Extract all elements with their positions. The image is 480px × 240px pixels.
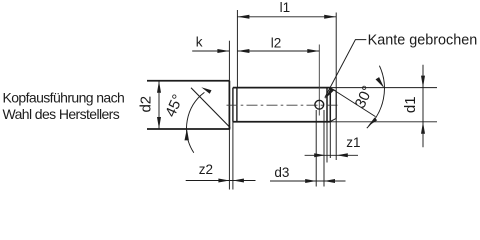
axis centerline (227, 104, 340, 106)
dimension d1 (402, 65, 425, 148)
svg-text:l2: l2 (271, 35, 282, 50)
end chamfer edge top (330, 88, 336, 91)
head outline bottom (147, 128, 230, 130)
leader Kante gebrochen (325, 32, 477, 99)
svg-text:k: k (196, 35, 203, 50)
extension line d3 right (323, 110, 325, 187)
extension line d3 left (315, 110, 317, 187)
head outline top (147, 80, 230, 82)
svg-text:Kante gebrochen: Kante gebrochen (368, 32, 478, 48)
svg-text:d1: d1 (402, 96, 419, 113)
extension line l1 z1 right (335, 13, 337, 161)
svg-text:z1: z1 (346, 135, 360, 150)
dimension l2 (237, 35, 319, 53)
extension line d1 bottom (330, 121, 437, 123)
dimension l1 (237, 0, 336, 19)
svg-text:Wahl des Herstellers: Wahl des Herstellers (3, 106, 120, 122)
dimension z2 (186, 162, 256, 182)
extension line z1 left (326, 122, 328, 163)
extension line z2 b (232, 122, 234, 190)
dimension k (192, 35, 229, 53)
head 45deg chamfer line (191, 88, 230, 128)
hole circle (315, 100, 324, 109)
end face (335, 91, 337, 119)
hole vertical centerline (318, 45, 320, 116)
extension line k (head face up) (228, 41, 230, 81)
svg-text:z2: z2 (199, 162, 213, 177)
end chamfer start line (326, 88, 328, 122)
dimension d3 (270, 165, 346, 183)
svg-text:d2: d2 (138, 96, 155, 113)
end second line (329, 88, 331, 122)
svg-text:45°: 45° (162, 92, 187, 120)
45deg angle dimension (162, 87, 211, 153)
30deg angle dimension (352, 66, 385, 128)
shank outline top (233, 87, 331, 89)
extension line l1 l2 left (236, 10, 238, 88)
extension line z2 a (228, 129, 230, 190)
svg-text:l1: l1 (280, 0, 291, 15)
end chamfer edge bottom (330, 118, 336, 121)
undercut groove line 1 (232, 88, 234, 122)
note: Kopfausführung nach Wahl des Herstellers (3, 89, 125, 122)
svg-text:Kopfausführung nach: Kopfausführung nach (3, 89, 125, 105)
extension line end second below (329, 122, 331, 158)
svg-text:d3: d3 (274, 165, 289, 180)
30deg chamfer construction line (331, 88, 376, 117)
undercut groove line 2 (236, 88, 238, 122)
head bearing face (228, 81, 230, 129)
extension line d1 top (330, 87, 437, 89)
dimension z1 (305, 135, 361, 157)
shank outline bottom (233, 121, 331, 123)
dimension d2 (138, 81, 162, 129)
